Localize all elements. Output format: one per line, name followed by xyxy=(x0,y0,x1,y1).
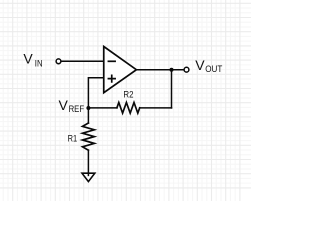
label VOUT xyxy=(195,57,222,74)
terminal VOUT xyxy=(184,67,189,72)
svg-text:R1: R1 xyxy=(68,132,78,143)
svg-text:REF: REF xyxy=(69,105,84,115)
label VIN xyxy=(23,51,42,69)
wire xyxy=(87,150,89,175)
ground xyxy=(82,173,95,181)
label VREF xyxy=(59,97,85,114)
wire xyxy=(88,78,103,108)
plus input pin xyxy=(108,75,115,82)
wire xyxy=(140,107,172,109)
wire xyxy=(88,107,117,109)
op-amp U1 xyxy=(104,47,137,93)
wire xyxy=(61,60,103,62)
wire xyxy=(171,70,173,108)
wire xyxy=(136,69,184,71)
junction node VREF xyxy=(86,106,90,110)
resistor R2 xyxy=(117,103,140,114)
junction node OUT xyxy=(170,68,174,72)
svg-text:V: V xyxy=(23,51,33,67)
svg-text:OUT: OUT xyxy=(205,64,222,74)
svg-text:IN: IN xyxy=(35,59,43,69)
resistor R1 xyxy=(83,123,95,150)
svg-text:V: V xyxy=(59,97,69,113)
minus input pin xyxy=(108,60,115,62)
wire xyxy=(87,108,89,123)
svg-text:R2: R2 xyxy=(123,89,133,100)
terminal VIN xyxy=(56,59,61,64)
svg-text:V: V xyxy=(195,57,205,73)
